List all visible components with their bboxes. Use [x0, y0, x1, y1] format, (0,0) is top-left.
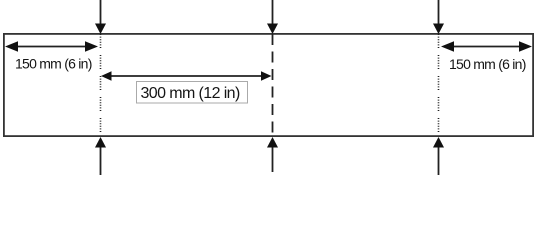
svg-text:300 mm (12 in): 300 mm (12 in) [141, 85, 240, 102]
svg-text:150 mm (6 in): 150 mm (6 in) [449, 56, 526, 72]
svg-text:150 mm (6 in): 150 mm (6 in) [15, 56, 92, 72]
